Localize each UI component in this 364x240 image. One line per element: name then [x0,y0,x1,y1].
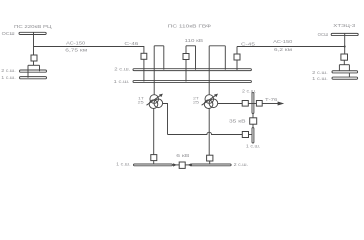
transformer 1Т winding 35кВ [154,99,163,108]
svg-text:ОСШ: ОСШ [2,31,15,36]
transformer 1Т winding 110кВ [150,95,159,104]
transformer 1Т tap arrow [147,95,162,105]
bus ОСШ (ПС 220кВ РЦ) [19,32,46,34]
transformer 2Т winding 6кВ [204,100,213,109]
breaker МВ-110 coupler [183,54,189,60]
wire coupler breaker up [185,46,187,54]
wire 2Т jumper bar [209,45,225,47]
svg-text:С-46: С-46 [124,41,139,46]
wire coupler breaker to 1 с.ш. [185,60,187,82]
wire bar horizontal (ХТЭЦ-3) [339,64,349,66]
svg-text:ХТЭЦ-3: ХТЭЦ-3 [333,23,356,28]
svg-text:2 с.ш.: 2 с.ш. [1,68,15,73]
wire С-45 bay to 2 с.ш. [236,60,238,70]
svg-text:1 с.ш.: 1 с.ш. [312,76,328,81]
wire coupler jumper leg to 2 с.ш. [195,46,197,70]
bus 1 с.ш. 110кВ [133,81,251,83]
wire ОСШ to breaker (ХТЭЦ-3) [344,33,346,54]
wire 2Т-6 breaker to bus [209,161,211,164]
wire 2Т 35кВ tap [218,103,243,105]
wire 2сш bus to section breaker 35кВ [252,114,254,118]
wire line АС-150 РЦ-ГВФ [34,47,144,54]
wire 1Т jumper leg to 2 с.ш. [163,46,165,70]
bus 2 с.ш. (ХТЭЦ-3) [332,71,358,73]
bus 1 с.ш. 35кВ vertical [252,128,254,143]
svg-text:ПС 220кВ РЦ: ПС 220кВ РЦ [14,24,52,30]
node junction dot АС-150 right [344,46,346,48]
breaker С-46 [141,53,147,59]
svg-text:25: 25 [138,100,144,105]
svg-text:6 кВ: 6 кВ [176,153,189,158]
bus 1 с.ш. (ПС 220кВ РЦ) [20,77,47,79]
wire 2Т 6кВ feed [208,109,210,156]
wire 1Т feed vertical [153,46,155,95]
wire С-46 bay to 1 с.ш. [143,59,145,81]
wire line Т-76 with arrow [262,103,278,105]
bus 1 с.ш. 6кВ [134,164,173,166]
breaker СВ-6 [179,162,185,168]
wire 1Т 6кВ feed [153,109,155,155]
wire coupler jumper bar [186,45,196,47]
breaker С-45 [234,54,240,60]
breaker Q2 (ХТЭЦ-3) [341,54,348,60]
wire across 2сш bus 35кВ [248,103,256,105]
breaker 1Т-35 [242,132,248,138]
wire 1Т 35кВ tap [163,104,168,135]
svg-text:110 кВ: 110 кВ [185,38,204,43]
transformer 2Т tap arrow [202,95,217,105]
svg-text:2 с.ш.: 2 с.ш. [242,88,256,93]
bus 2 с.ш. 110кВ [133,69,251,71]
breaker 2Т-6 [207,155,213,161]
svg-text:1 с.ш.: 1 с.ш. [114,79,130,84]
svg-text:35 кВ: 35 кВ [229,118,246,123]
svg-text:6,2 км: 6,2 км [274,47,292,52]
svg-text:ПС 110кВ ГВФ: ПС 110кВ ГВФ [168,23,212,29]
svg-text:1 с.ш.: 1 с.ш. [116,162,130,167]
breaker Т-76 [256,101,262,107]
wire 1Т-6 breaker to bus [153,161,155,164]
svg-text:ОСШ: ОСШ [318,32,329,37]
wire 1Т jumper bar [154,45,164,47]
transformer 2Т winding 35кВ [209,99,218,108]
wire 2Т jumper leg to 2 с.ш. [224,46,226,70]
wire breaker to bar (ПС 220кВ РЦ) [33,61,35,65]
wire 1Т-35 breaker to bus [249,134,253,136]
breaker Q1 (ПС 220кВ РЦ) [31,55,37,61]
wire line АС-150 ГВФ-ХТЭЦ [237,46,345,48]
wire ОСШ to breaker (ПС 220кВ РЦ) [33,32,35,55]
svg-text:2 с.ш.: 2 с.ш. [234,162,248,167]
svg-text:Т-76: Т-76 [265,97,278,102]
svg-text:6,75 км: 6,75 км [65,47,87,52]
breaker 2Т-35 [242,101,248,107]
breaker 1Т-6 [151,155,157,161]
transformer 2Т winding 110кВ [205,95,214,104]
wire 35кВ lower link with hop [168,132,243,134]
svg-text:2 с.ш.: 2 с.ш. [114,66,130,71]
svg-text:2 с.ш.: 2 с.ш. [312,70,328,75]
svg-text:1 с.ш.: 1 с.ш. [1,75,15,80]
wire 2Т feed vertical [208,46,210,95]
wire section breaker to 2сш-6кВ with arrow [185,164,191,166]
svg-text:АС-150: АС-150 [273,39,293,44]
wire left leg to 1 с.ш. (ПС 220кВ РЦ) [27,65,29,77]
transformer 1Т winding 6кВ [149,100,158,109]
wire 1сш-6кВ to section breaker with arrow [172,164,179,166]
svg-text:25: 25 [193,99,199,104]
bus 2 с.ш. 6кВ [191,164,231,166]
wire С-45 breaker up [236,47,238,55]
svg-text:С-45: С-45 [241,41,256,46]
bus 1 с.ш. (ХТЭЦ-3) [332,77,358,79]
wire breaker to bar (ХТЭЦ-3) [343,60,345,64]
wire bar horizontal (ПС 220кВ РЦ) [28,64,40,66]
bus 2 с.ш. (ПС 220кВ РЦ) [20,70,47,72]
wire right leg to 2 с.ш. (ПС 220кВ РЦ) [39,65,41,71]
wire left leg to 2 с.ш. (ХТЭЦ-3) [338,65,340,72]
bus ОСШ (ХТЭЦ-3) [331,33,358,35]
wire section breaker to 1сш bus 35кВ [252,124,254,127]
svg-text:АС-150: АС-150 [66,41,86,46]
breaker СВ-35 [250,118,257,124]
svg-text:1 с.ш.: 1 с.ш. [246,143,260,148]
bus 2 с.ш. 35кВ vertical [252,93,254,114]
wire right leg to 1 с.ш. (ХТЭЦ-3) [348,65,350,78]
